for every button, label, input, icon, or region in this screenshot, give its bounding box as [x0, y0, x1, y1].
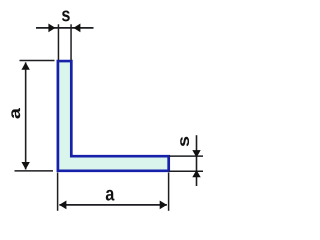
top dimension s : left arrow (points right) [48, 24, 55, 33]
bottom dimension a : right arrow (points right) [160, 200, 167, 209]
right dimension s : dimension line [196, 135, 198, 186]
top dimension s : extension line right [70, 24, 72, 60]
left dimension a : top arrow (points up) [21, 62, 29, 69]
top dimension s : right arrow (points left) [73, 24, 80, 33]
bottom dimension a : dimension line [59, 204, 166, 206]
bottom dimension a : extension line left [57, 173, 59, 211]
label s (right, rotated) [180, 137, 189, 147]
left dimension a : extension line top [20, 60, 55, 62]
L-angle profile [58, 61, 169, 171]
bottom dimension a : left arrow (points left) [59, 200, 66, 209]
label a (bottom) [106, 190, 115, 201]
left dimension a : dimension line [25, 62, 27, 169]
right dimension s : upper arrow (points down) [192, 150, 200, 157]
left dimension a : bottom arrow (points down) [21, 162, 29, 170]
bottom dimension a : extension line right [168, 173, 170, 211]
top dimension s : dimension line [36, 27, 94, 29]
label a (left, rotated) [11, 108, 20, 119]
right dimension s : extension line bottom [169, 170, 203, 172]
right dimension s : lower arrow (points up) [192, 170, 200, 177]
label s (top) [62, 10, 70, 21]
top dimension s : extension line left [57, 24, 59, 60]
right dimension s : extension line top [169, 155, 203, 157]
left dimension a : extension line bottom [15, 170, 54, 172]
